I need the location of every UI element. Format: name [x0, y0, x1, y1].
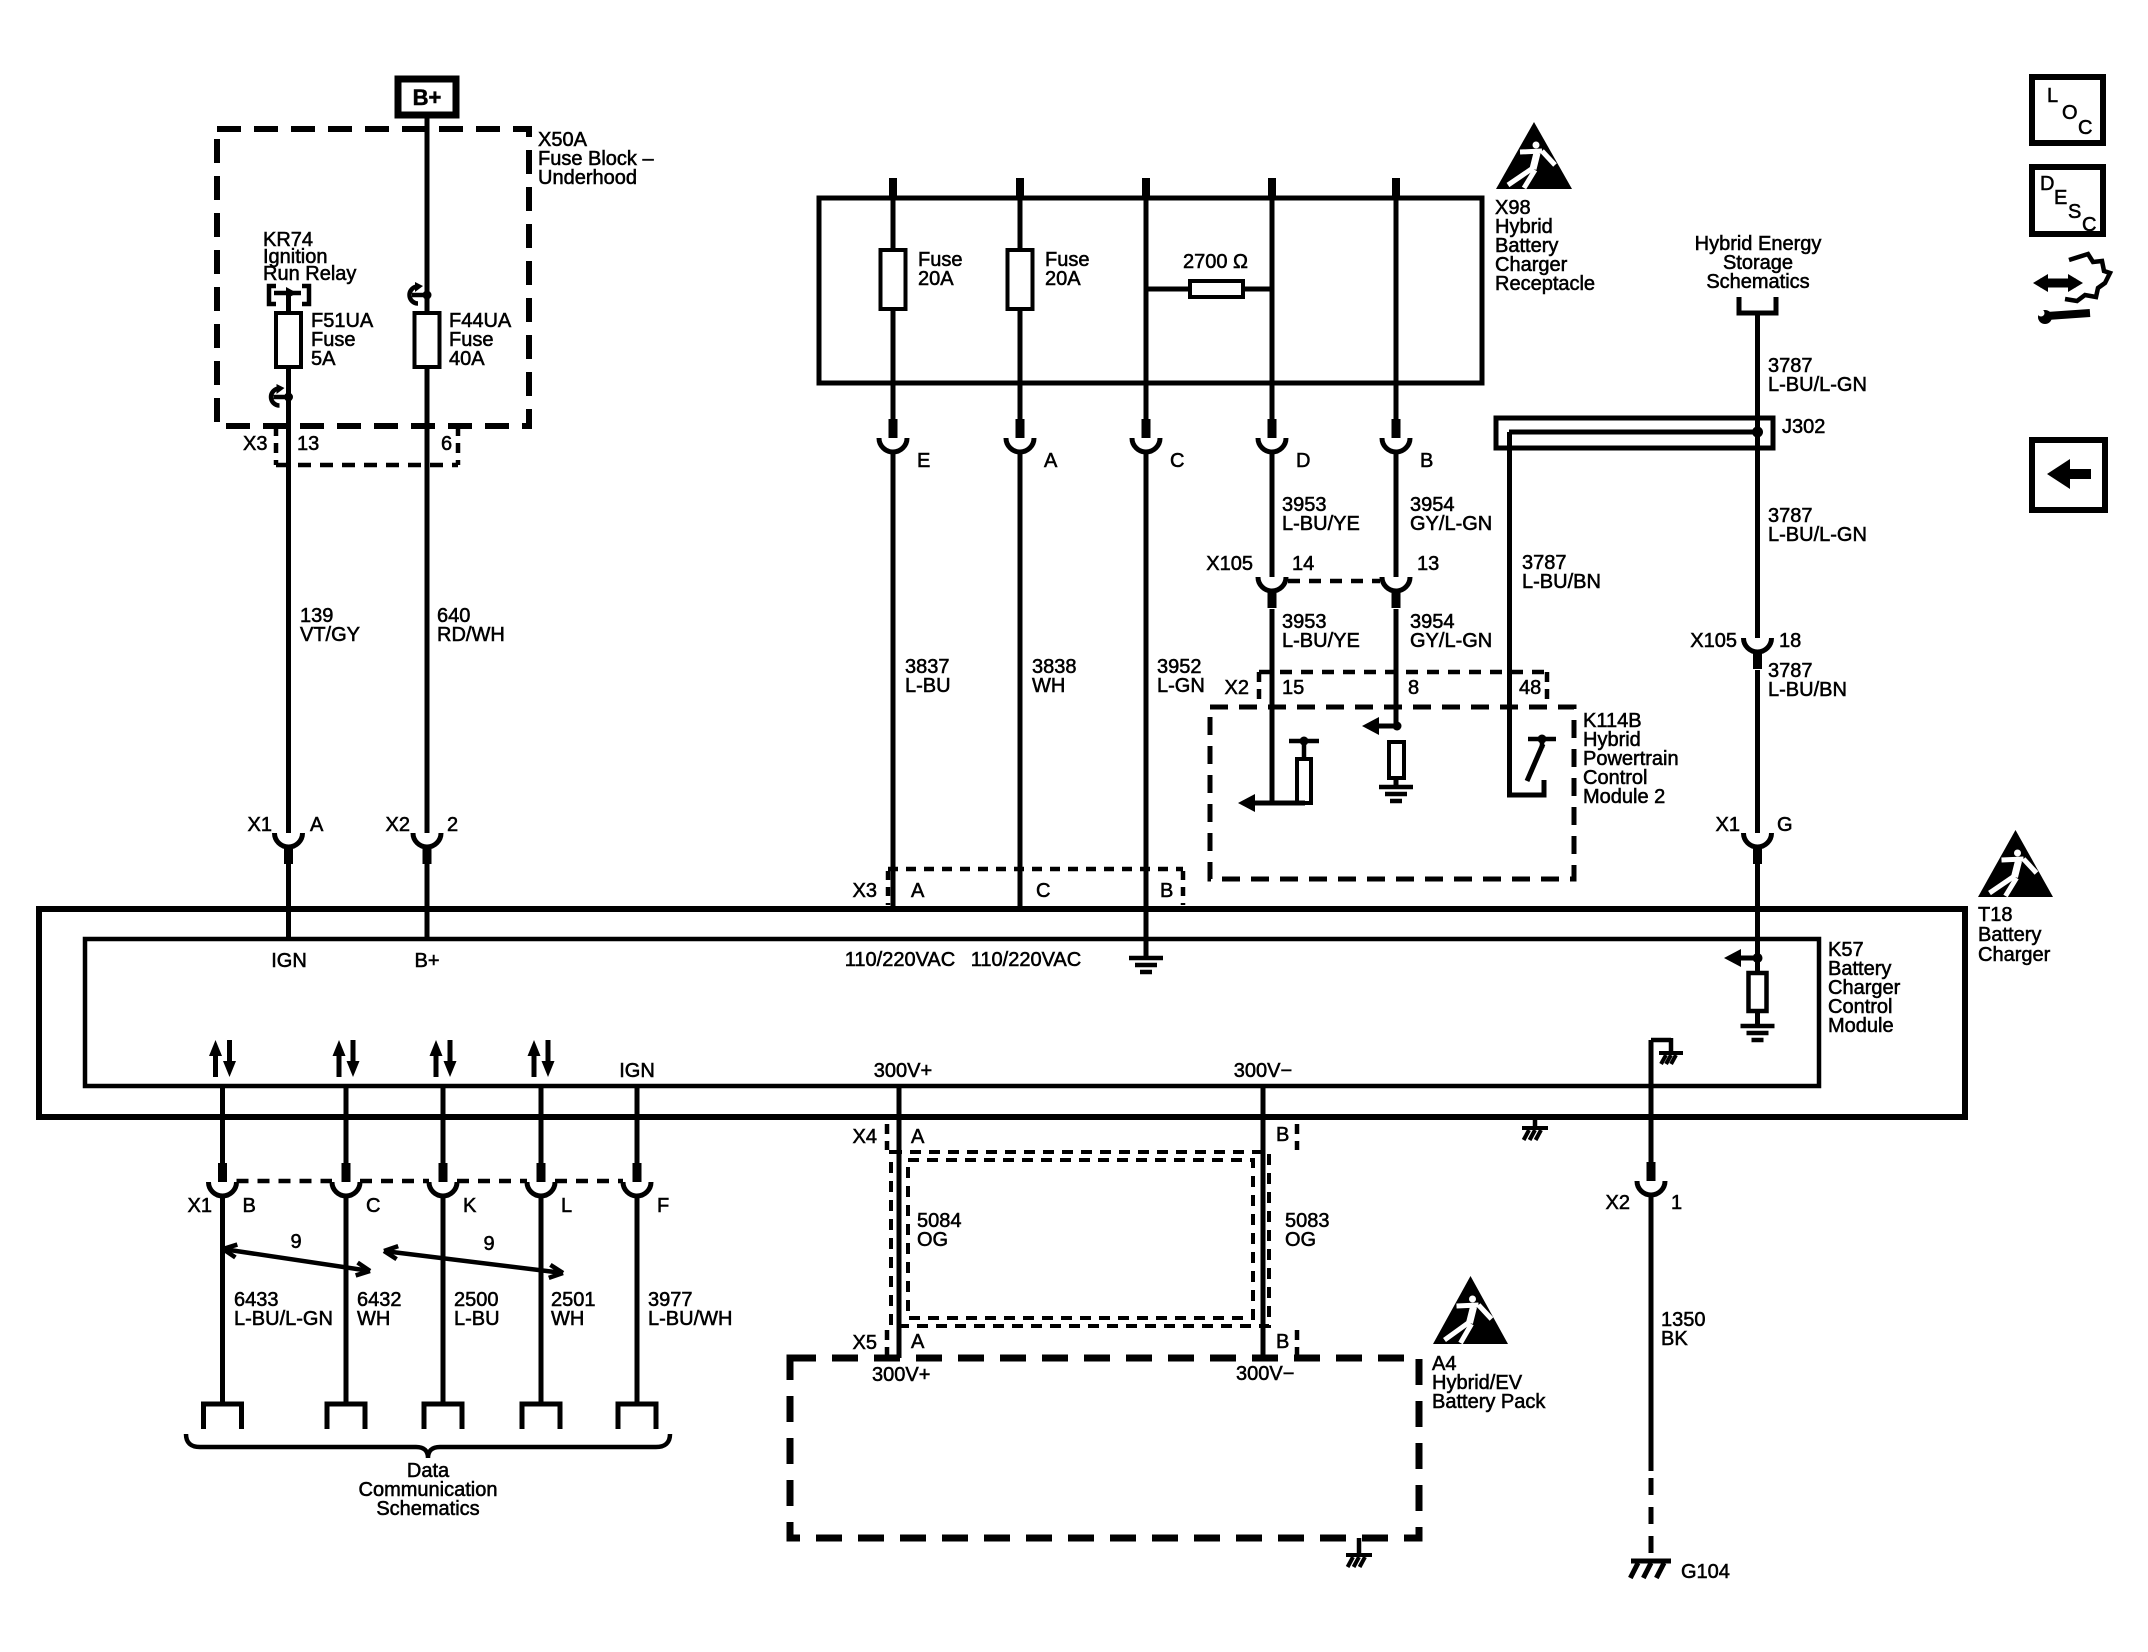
svg-text:B+: B+ — [414, 950, 439, 972]
svg-text:Receptacle: Receptacle — [1495, 273, 1595, 295]
svg-text:110/220VAC: 110/220VAC — [971, 949, 1081, 971]
svg-text:C: C — [2078, 117, 2092, 139]
svg-text:RD/WH: RD/WH — [437, 624, 505, 646]
svg-text:A: A — [911, 880, 925, 902]
svg-text:GY/L-GN: GY/L-GN — [1410, 630, 1492, 652]
svg-text:40A: 40A — [449, 348, 485, 370]
svg-text:X1: X1 — [248, 814, 272, 836]
svg-text:13: 13 — [1417, 553, 1439, 575]
svg-text:B: B — [1276, 1124, 1289, 1146]
svg-text:L-BU/YE: L-BU/YE — [1282, 630, 1360, 652]
svg-text:WH: WH — [551, 1308, 584, 1330]
svg-text:O: O — [2062, 102, 2078, 124]
svg-text:C: C — [1170, 450, 1184, 472]
svg-text:15: 15 — [1282, 677, 1304, 699]
svg-text:48: 48 — [1519, 677, 1541, 699]
svg-text:X105: X105 — [1206, 553, 1253, 575]
svg-text:9: 9 — [483, 1233, 494, 1255]
svg-text:20A: 20A — [918, 268, 954, 290]
svg-text:E: E — [2054, 187, 2067, 209]
svg-text:D: D — [2040, 173, 2054, 195]
svg-text:Schematics: Schematics — [376, 1498, 479, 1520]
svg-text:A: A — [911, 1126, 925, 1148]
svg-text:K: K — [463, 1195, 477, 1217]
svg-text:Underhood: Underhood — [538, 167, 637, 189]
svg-text:A: A — [911, 1331, 925, 1353]
svg-text:L-BU/L-GN: L-BU/L-GN — [1768, 374, 1867, 396]
svg-text:X2: X2 — [1606, 1192, 1630, 1214]
svg-text:WH: WH — [357, 1308, 390, 1330]
svg-text:14: 14 — [1292, 553, 1314, 575]
svg-text:Run Relay: Run Relay — [263, 263, 356, 285]
svg-text:X3: X3 — [243, 433, 267, 455]
svg-text:BK: BK — [1661, 1328, 1688, 1350]
svg-text:X1: X1 — [188, 1195, 212, 1217]
svg-text:IGN: IGN — [619, 1060, 655, 1082]
svg-text:110/220VAC: 110/220VAC — [845, 949, 955, 971]
svg-text:A: A — [1044, 450, 1058, 472]
svg-text:9: 9 — [290, 1231, 301, 1253]
svg-text:2700 Ω: 2700 Ω — [1183, 251, 1248, 273]
svg-text:8: 8 — [1408, 677, 1419, 699]
svg-text:L-BU: L-BU — [454, 1308, 500, 1330]
svg-text:1: 1 — [1671, 1192, 1682, 1214]
svg-text:L: L — [561, 1195, 572, 1217]
svg-text:L-BU/YE: L-BU/YE — [1282, 513, 1360, 535]
svg-text:5A: 5A — [311, 348, 336, 370]
svg-text:Battery: Battery — [1978, 924, 2041, 946]
svg-text:B: B — [1160, 880, 1173, 902]
svg-text:S: S — [2068, 201, 2081, 223]
svg-text:20A: 20A — [1045, 268, 1081, 290]
svg-text:L-GN: L-GN — [1157, 675, 1205, 697]
svg-text:L-BU/BN: L-BU/BN — [1522, 571, 1601, 593]
svg-text:C: C — [2082, 214, 2096, 236]
svg-text:GY/L-GN: GY/L-GN — [1410, 513, 1492, 535]
svg-text:IGN: IGN — [271, 950, 307, 972]
svg-text:X5: X5 — [853, 1332, 877, 1354]
svg-text:F: F — [657, 1195, 669, 1217]
svg-text:2: 2 — [447, 814, 458, 836]
svg-text:C: C — [1036, 880, 1050, 902]
svg-text:300V−: 300V− — [1234, 1060, 1292, 1082]
svg-text:X4: X4 — [853, 1126, 877, 1148]
svg-text:VT/GY: VT/GY — [300, 624, 360, 646]
svg-text:300V+: 300V+ — [872, 1364, 930, 1386]
svg-text:B: B — [1420, 450, 1433, 472]
svg-text:L: L — [2047, 85, 2058, 107]
svg-text:18: 18 — [1779, 630, 1801, 652]
svg-text:6: 6 — [441, 433, 452, 455]
svg-text:L-BU: L-BU — [905, 675, 951, 697]
svg-text:Charger: Charger — [1978, 944, 2051, 966]
svg-text:X105: X105 — [1690, 630, 1737, 652]
svg-text:X2: X2 — [1225, 677, 1249, 699]
svg-text:L-BU/WH: L-BU/WH — [648, 1308, 732, 1330]
svg-text:300V+: 300V+ — [874, 1060, 932, 1082]
svg-text:L-BU/L-GN: L-BU/L-GN — [234, 1308, 333, 1330]
svg-text:X1: X1 — [1716, 814, 1740, 836]
svg-text:A: A — [310, 814, 324, 836]
svg-text:B+: B+ — [413, 85, 442, 110]
svg-text:D: D — [1296, 450, 1310, 472]
svg-text:J302: J302 — [1782, 416, 1825, 438]
svg-text:WH: WH — [1032, 675, 1065, 697]
svg-text:E: E — [917, 450, 930, 472]
svg-text:B: B — [243, 1195, 256, 1217]
svg-text:300V−: 300V− — [1236, 1363, 1294, 1385]
svg-text:Module 2: Module 2 — [1583, 786, 1665, 808]
svg-text:C: C — [366, 1195, 380, 1217]
svg-text:OG: OG — [1285, 1229, 1316, 1251]
svg-text:X3: X3 — [853, 880, 877, 902]
svg-text:X2: X2 — [386, 814, 410, 836]
svg-text:OG: OG — [917, 1229, 948, 1251]
svg-text:T18: T18 — [1978, 904, 2012, 926]
svg-text:Battery Pack: Battery Pack — [1432, 1391, 1546, 1413]
svg-text:G104: G104 — [1681, 1561, 1730, 1583]
svg-text:13: 13 — [297, 433, 319, 455]
svg-text:L-BU/BN: L-BU/BN — [1768, 679, 1847, 701]
svg-text:Schematics: Schematics — [1706, 271, 1809, 293]
svg-text:Module: Module — [1828, 1015, 1894, 1037]
svg-text:G: G — [1777, 814, 1793, 836]
svg-text:L-BU/L-GN: L-BU/L-GN — [1768, 524, 1867, 546]
svg-text:B: B — [1276, 1331, 1289, 1353]
